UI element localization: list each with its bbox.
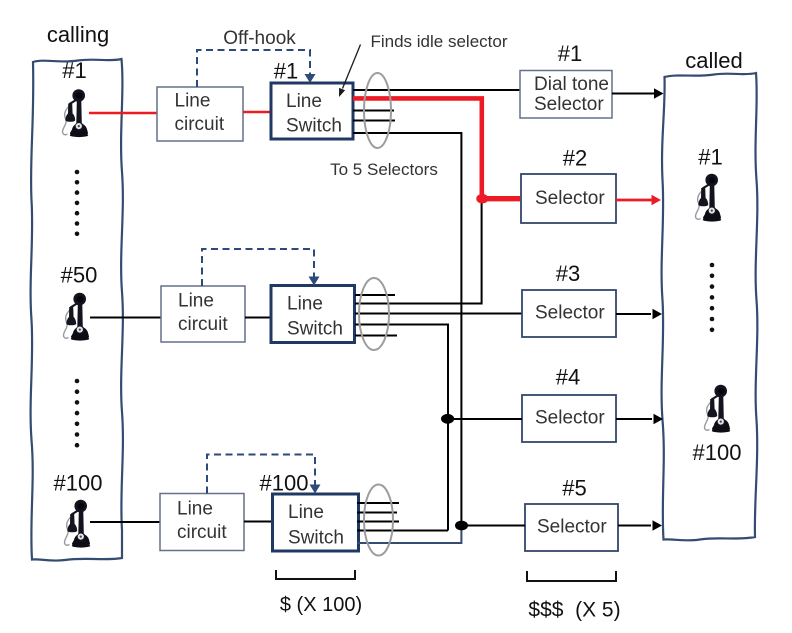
svg-text:Selector: Selector [535,303,605,324]
svg-text:#4: #4 [556,365,580,390]
line switch 1 box [271,83,353,139]
dots calling lower [75,379,80,448]
svg-text:To 5 Selectors: To 5 Selectors [330,160,438,179]
selector 4 box [522,395,616,442]
line switch 2 text [287,294,343,340]
wire selector4 to called [616,418,652,420]
svg-text:#1: #1 [698,145,722,170]
line circuit 1 box [157,87,243,141]
svg-text:Line: Line [287,294,323,315]
svg-text:called: called [685,48,742,73]
cable oval 3 [364,485,393,556]
wire phone50 to line circuit 2 [90,317,161,319]
svg-text:Selector: Selector [537,517,607,538]
svg-text:Off-hook: Off-hook [223,28,296,49]
selector 5 box [525,504,618,551]
line circuit 3 box [160,494,244,551]
wire selector1 to called [612,93,654,95]
wire LS3 out2 stub [357,512,397,514]
cable oval 1 [364,73,391,148]
wire LS1 out3 stub [353,110,394,112]
line circuit 1 text [175,91,225,136]
wire line circuit 3 to line switch 3 [244,521,273,523]
svg-text:Line: Line [178,291,214,312]
wire node to selector 5 [462,525,526,527]
wire LS3 out4 to node [357,530,448,532]
line circuit 2 text [178,291,228,336]
wire LS3 out5 navy to node [357,527,461,543]
off-hook dashed link 1 [197,50,310,87]
phone #100 called [705,385,731,433]
wire LS2 out1 stub [355,294,395,296]
phone #1 calling [63,89,89,137]
annotation arrowhead [339,88,345,97]
off-hook dashed link 3 [207,455,315,494]
wire selector3 to called [616,313,651,315]
wire LS2 out4 down [355,325,448,531]
bracket line switches [276,570,355,579]
wire selector5 to called [618,525,651,527]
svg-text:#50: #50 [61,263,98,288]
wire phone1 to line circuit 1 (red) [89,112,157,115]
svg-text:Switch: Switch [286,116,342,137]
svg-text:Finds idle selector: Finds idle selector [370,32,507,51]
svg-text:circuit: circuit [177,522,227,543]
svg-text:$ (X 100): $ (X 100) [280,594,362,616]
wire LS2 out3 to selector 3 [355,313,522,315]
node selector2 (red) [476,194,488,204]
wire LS1 out5 long [353,133,461,526]
off-hook dashed link 2 [202,249,314,286]
svg-text:#1: #1 [274,59,298,84]
dots called [710,263,715,332]
calling column (wavy box) [31,59,123,561]
svg-text:Line: Line [177,499,213,520]
off-hook arrowhead 1 [305,74,316,83]
svg-text:Dial tone: Dial tone [534,74,609,95]
selector 2 box [521,174,616,223]
svg-text:Selector: Selector [534,94,604,115]
phone #100 calling [65,500,91,548]
line switch 1 text [286,91,342,137]
svg-text:Line: Line [175,91,211,112]
node selector4 [441,414,454,424]
svg-text:calling: calling [47,22,109,47]
svg-text:$$$ (X 5): $$$ (X 5) [528,599,620,622]
line switch 3 text [288,502,344,549]
svg-text:#100: #100 [693,440,742,465]
svg-text:#1: #1 [558,41,582,66]
svg-text:Switch: Switch [288,528,344,549]
svg-text:#1: #1 [62,58,86,83]
svg-text:Switch: Switch [287,319,343,340]
line switch 3 box [273,494,359,551]
wire LS3 out1 stub [357,502,399,504]
off-hook arrowhead 3 [310,485,321,494]
wire line circuit 1 to line switch 1 (red) [243,111,271,114]
arrowhead selector5 [653,520,663,531]
svg-text:Line: Line [288,502,324,523]
svg-text:Selector: Selector [535,188,605,209]
wire LS2 out5 stub [355,335,397,337]
wire LS1 out2 red bus [353,98,482,196]
bracket selectors [527,571,616,581]
svg-text:Selector: Selector [535,408,605,429]
wire LS2 out2 up to red node [355,201,482,304]
called column (wavy box) [662,73,758,540]
svg-text:circuit: circuit [178,314,228,335]
dots calling upper [75,170,80,236]
annotation arrow line [343,45,361,89]
phone #50 calling [64,293,90,341]
selector 3 box [522,290,616,337]
svg-text:Line: Line [286,91,322,112]
svg-text:#5: #5 [562,476,586,501]
line circuit 3 text [177,499,227,544]
wire LS1 out1 to dial tone selector [353,89,520,91]
arrowhead selector1 [654,88,664,99]
wire red node to selector 2 [482,196,520,201]
wire node to selector 4 [448,418,522,420]
node selector5 [455,521,468,531]
wire phone100 to line circuit 3 [90,521,160,523]
line circuit 2 box [161,286,245,342]
svg-text:circuit: circuit [175,114,225,135]
wire LS1 out4 stub [353,120,395,122]
arrowhead selector4 [654,414,664,425]
wire line circuit 2 to line switch 2 [245,317,271,319]
svg-text:#100: #100 [260,471,309,496]
dial tone selector text [534,74,609,115]
cable oval 2 [359,278,389,350]
wire LS3 out3 stub [357,521,399,523]
arrowhead selector2 (red) [652,195,662,206]
dial tone selector box [520,71,612,119]
off-hook arrowhead 2 [309,277,320,286]
svg-text:#3: #3 [556,261,580,286]
svg-text:#100: #100 [54,471,103,496]
wire selector2 to called (red) [616,199,652,202]
arrowhead selector3 [653,309,663,320]
svg-text:#2: #2 [563,146,587,171]
line switch 2 box [271,286,355,343]
phone #1 called [696,174,722,222]
